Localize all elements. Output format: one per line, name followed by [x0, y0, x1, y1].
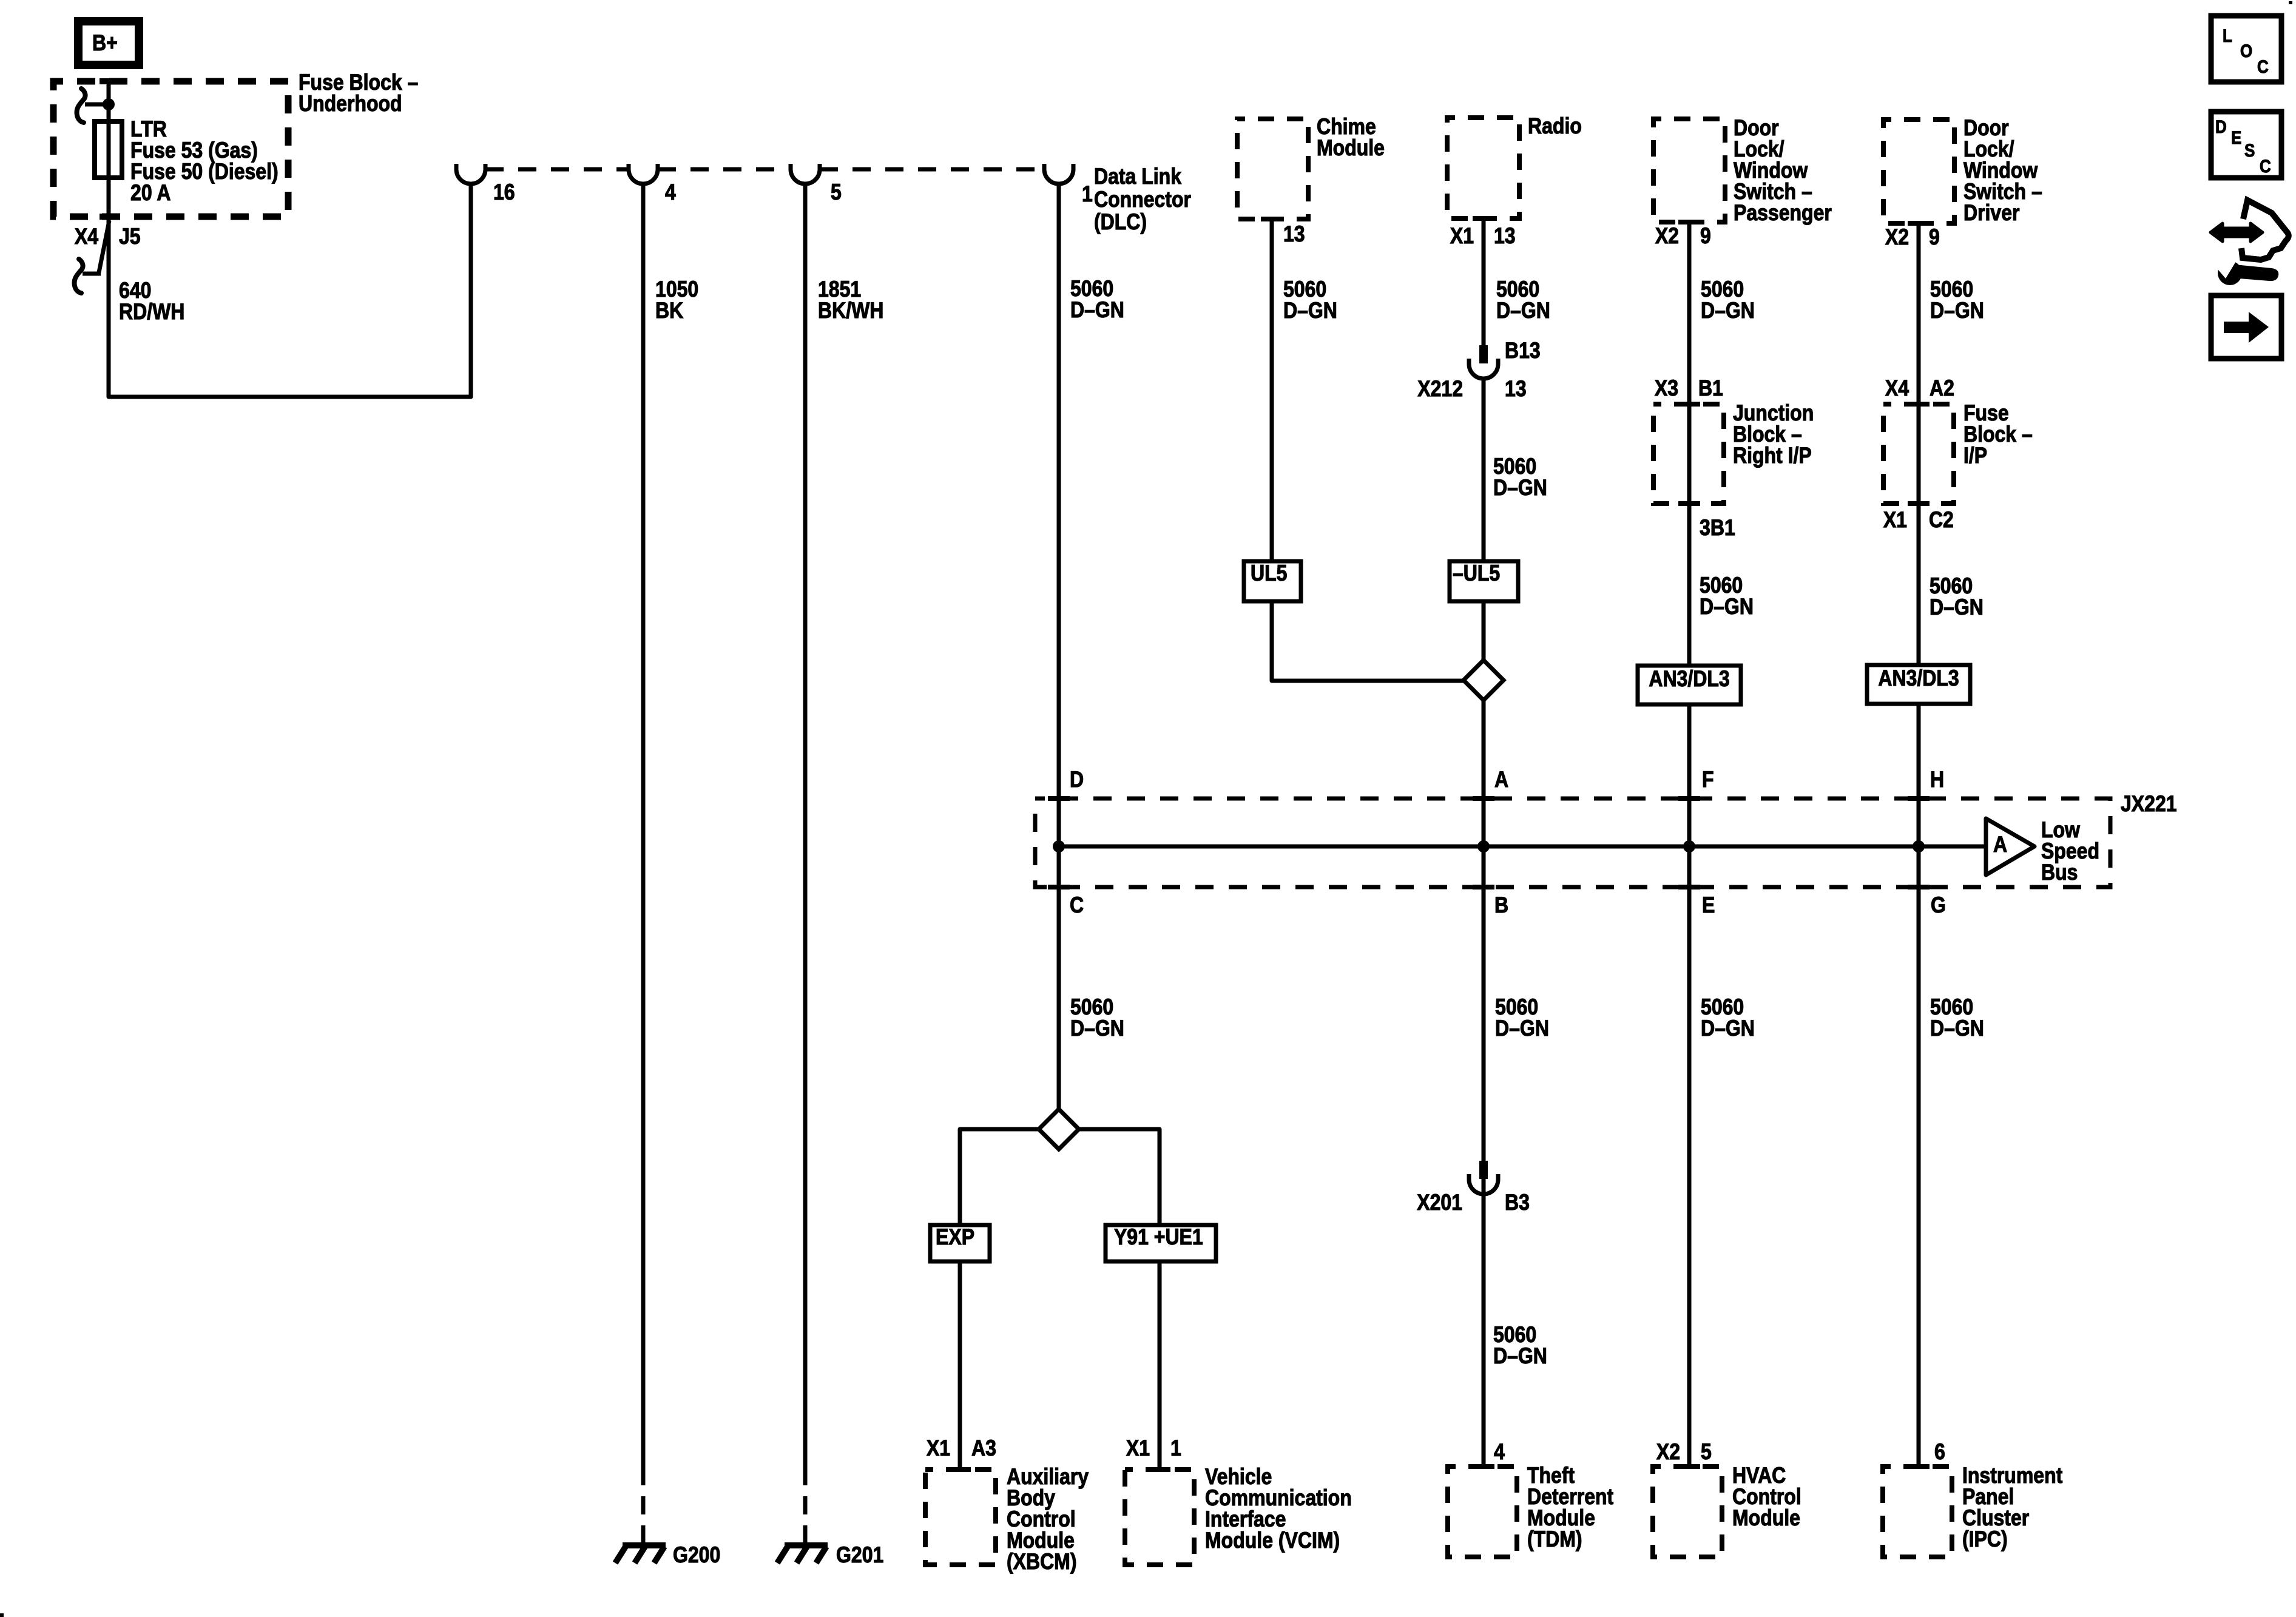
- svg-text:5: 5: [831, 180, 842, 205]
- svg-text:Module (VCIM): Module (VCIM): [1205, 1528, 1340, 1553]
- wire diamond to bus: [1482, 700, 1486, 846]
- svg-text:Module: Module: [1732, 1506, 1800, 1531]
- svg-text:D–GN: D–GN: [1496, 299, 1550, 323]
- svg-text:A2: A2: [1930, 376, 1954, 401]
- fuse AN3/DL3 driver: [1867, 665, 1970, 704]
- DLC pin 1 connector cup: [1044, 164, 1073, 184]
- svg-text:16: 16: [493, 180, 515, 205]
- svg-text:1: 1: [1170, 1436, 1181, 1461]
- wire from driver switch: [1917, 223, 1921, 404]
- svg-text:H: H: [1930, 768, 1944, 792]
- svg-text:X1: X1: [1126, 1436, 1150, 1461]
- junction dots on bus: [1053, 840, 1065, 852]
- HVAC Control Module box: [1653, 1467, 1722, 1557]
- svg-text:E: E: [1702, 893, 1715, 918]
- svg-text:B1: B1: [1698, 376, 1723, 401]
- connector X4 J5 symbols: [99, 221, 109, 272]
- svg-text:D: D: [2215, 116, 2227, 137]
- svg-text:B+: B+: [92, 31, 118, 56]
- junction dot: [103, 98, 115, 110]
- svg-text:D–GN: D–GN: [1930, 595, 1984, 620]
- svg-text:JX221: JX221: [2121, 792, 2177, 817]
- svg-text:Radio: Radio: [1528, 114, 1582, 139]
- arrow icon box: [2211, 295, 2281, 359]
- svg-text:X2: X2: [1885, 225, 1909, 250]
- Door Lock/Window Switch Passenger box: [1653, 119, 1725, 222]
- svg-text:D–GN: D–GN: [1930, 299, 1984, 323]
- svg-text:C: C: [2260, 156, 2271, 176]
- Y91 +UE1 option box: [1106, 1225, 1216, 1261]
- wire EXP to XBCM: [958, 1261, 962, 1470]
- ground G201: [785, 1542, 828, 1548]
- svg-text:4: 4: [1494, 1440, 1505, 1465]
- svg-text:D–GN: D–GN: [1700, 595, 1754, 619]
- JX221 dashed harness box: [1035, 798, 2110, 887]
- wire 640 RD/WH down: [107, 175, 111, 396]
- svg-text:Module: Module: [1317, 136, 1385, 161]
- svg-text:D–GN: D–GN: [1283, 299, 1337, 323]
- Instrument Panel Cluster box: [1883, 1467, 1952, 1557]
- svg-text:Passenger: Passenger: [1734, 201, 1832, 226]
- svg-text:B: B: [1494, 893, 1508, 918]
- svg-text:13: 13: [1283, 222, 1305, 247]
- dashed wire to G200: [641, 1467, 646, 1545]
- wire Y91 to VCIM: [1158, 1261, 1162, 1470]
- svg-text:(IPC): (IPC): [1962, 1527, 2008, 1552]
- dashed wire to G201: [803, 1467, 808, 1545]
- svg-text:9: 9: [1700, 224, 1711, 249]
- Chime Module box: [1237, 119, 1308, 219]
- svg-text:D–GN: D–GN: [1495, 1016, 1549, 1041]
- wire -UL5 to diamond: [1482, 601, 1486, 661]
- svg-text:5: 5: [1701, 1440, 1712, 1465]
- wire branch left to EXP: [960, 1129, 1039, 1227]
- wire from chime: [1270, 219, 1274, 561]
- page corner marks: [0, 1613, 4, 1617]
- wire 640 horizontal run to pin 16: [109, 184, 471, 397]
- svg-text:C: C: [1070, 893, 1084, 918]
- Auxiliary Body Control Module box: [925, 1470, 996, 1565]
- DLC pin 16 connector cup: [456, 164, 485, 184]
- svg-text:A: A: [1494, 768, 1508, 792]
- svg-text:BK/WH: BK/WH: [818, 299, 883, 323]
- tick: [100, 78, 118, 84]
- svg-text:X2: X2: [1655, 224, 1679, 249]
- bus arrow A: [1986, 819, 2034, 875]
- wire 1851 BK/WH: [803, 184, 808, 1467]
- svg-text:I/P: I/P: [1963, 444, 1987, 468]
- svg-text:AN3/DL3: AN3/DL3: [1878, 666, 1959, 691]
- svg-text:3B1: 3B1: [1700, 516, 1735, 541]
- svg-text:X1: X1: [1883, 508, 1907, 533]
- wire below G to IPC: [1917, 846, 1921, 1467]
- svg-text:E: E: [2231, 127, 2241, 147]
- wire through fuse block I/P: [1917, 404, 1921, 665]
- svg-text:20 A: 20 A: [130, 181, 171, 206]
- svg-text:A: A: [1993, 832, 2007, 857]
- Radio box: [1447, 118, 1519, 218]
- svg-text:D: D: [1070, 768, 1084, 792]
- svg-text:Data Link: Data Link: [1094, 164, 1182, 189]
- wire 1050 BK: [641, 184, 646, 1467]
- svg-text:Driver: Driver: [1963, 201, 2019, 226]
- splice diamond UL5: [1464, 660, 1504, 700]
- svg-text:Bus: Bus: [2041, 860, 2078, 885]
- wire branch right to Y91: [1078, 1129, 1160, 1227]
- hand icon double arrow: [2210, 223, 2263, 241]
- svg-text:C: C: [2257, 56, 2269, 76]
- svg-text:Right I/P: Right I/P: [1733, 444, 1812, 468]
- svg-text:X1: X1: [1450, 224, 1474, 249]
- svg-text:(XBCM): (XBCM): [1007, 1550, 1077, 1575]
- svg-text:D–GN: D–GN: [1930, 1016, 1984, 1041]
- svg-text:EXP: EXP: [936, 1225, 974, 1250]
- svg-text:4: 4: [665, 180, 677, 205]
- low speed bus wire: [1059, 845, 1986, 849]
- power feed B+: [78, 21, 139, 65]
- DESC icon box: [2211, 112, 2281, 178]
- -UL5 option box: [1450, 561, 1518, 601]
- svg-text:G201: G201: [836, 1543, 883, 1568]
- splice X201 B3: [1479, 1161, 1488, 1179]
- fuse AN3/DL3 passenger: [1638, 666, 1741, 704]
- DLC connector dashed line: [485, 167, 629, 172]
- wrench icon: [2218, 261, 2242, 285]
- svg-text:X1: X1: [927, 1436, 950, 1461]
- DLC pin 5 connector cup: [791, 164, 820, 184]
- svg-text:B13: B13: [1505, 339, 1541, 363]
- ground G200: [623, 1542, 666, 1548]
- svg-text:X212: X212: [1417, 377, 1463, 402]
- svg-text:S: S: [2244, 140, 2255, 160]
- svg-text:1: 1: [1082, 182, 1093, 207]
- fuse block underhood box: [53, 81, 288, 217]
- svg-text:B3: B3: [1505, 1190, 1530, 1215]
- svg-text:13: 13: [1494, 224, 1516, 249]
- svg-text:UL5: UL5: [1251, 561, 1287, 586]
- svg-text:D–GN: D–GN: [1070, 298, 1124, 323]
- connector hook at B+ junction: [85, 103, 109, 107]
- svg-text:G: G: [1931, 893, 1946, 918]
- svg-text:X3: X3: [1655, 376, 1678, 401]
- wire below C: [1057, 846, 1061, 1110]
- wire from passenger switch: [1687, 222, 1692, 404]
- svg-text:9: 9: [1929, 225, 1940, 250]
- tick: [100, 214, 118, 220]
- svg-text:D–GN: D–GN: [1493, 476, 1547, 501]
- svg-text:Connector: Connector: [1094, 187, 1191, 212]
- LOC icon box: [2211, 16, 2281, 82]
- wire 5060 D-GN from DLC: [1057, 184, 1061, 846]
- wire to -UL5: [1482, 379, 1486, 561]
- svg-text:Underhood: Underhood: [299, 92, 402, 116]
- svg-text:D–GN: D–GN: [1493, 1344, 1547, 1369]
- wire below E to HVAC: [1687, 846, 1692, 1467]
- wire UL5 to diamond: [1272, 601, 1465, 681]
- Door Lock/Window Switch Driver box: [1883, 120, 1954, 223]
- splice X212 B13: [1479, 345, 1488, 363]
- DLC pin 4 connector cup: [629, 164, 658, 184]
- hand icon outline: [2241, 200, 2289, 260]
- EXP option box: [930, 1225, 990, 1261]
- svg-text:RD/WH: RD/WH: [119, 300, 184, 325]
- svg-text:J5: J5: [119, 224, 141, 249]
- svg-text:Y91 +UE1: Y91 +UE1: [1114, 1225, 1203, 1250]
- svg-text:X2: X2: [1656, 1440, 1680, 1465]
- svg-text:A3: A3: [971, 1436, 996, 1461]
- svg-text:AN3/DL3: AN3/DL3: [1649, 667, 1729, 692]
- svg-text:X4: X4: [1885, 376, 1909, 401]
- svg-text:C2: C2: [1929, 508, 1954, 533]
- Theft Deterrent Module box: [1448, 1467, 1517, 1557]
- wire below B: [1482, 846, 1486, 1467]
- Junction Block Right I/P box: [1653, 404, 1724, 504]
- svg-text:(TDM): (TDM): [1527, 1527, 1582, 1552]
- svg-text:G200: G200: [673, 1543, 720, 1568]
- svg-text:X201: X201: [1417, 1190, 1462, 1215]
- svg-text:F: F: [1702, 768, 1714, 792]
- Vehicle Communication Interface Module box: [1125, 1470, 1194, 1565]
- wire AN3/DL3 to bus: [1917, 704, 1921, 846]
- wire from radio: [1482, 218, 1486, 345]
- svg-text:–UL5: –UL5: [1453, 561, 1500, 586]
- fuse LTR Fuse 53: [95, 121, 122, 178]
- wire through junction block: [1687, 404, 1692, 666]
- svg-text:X4: X4: [75, 224, 99, 249]
- svg-text:L: L: [2223, 25, 2232, 46]
- svg-text:D–GN: D–GN: [1701, 1016, 1755, 1041]
- svg-text:13: 13: [1505, 377, 1527, 402]
- svg-text:(DLC): (DLC): [1094, 210, 1147, 235]
- svg-text:6: 6: [1934, 1440, 1945, 1465]
- svg-text:D–GN: D–GN: [1070, 1016, 1124, 1041]
- wire B+ into fuse block: [107, 81, 111, 124]
- svg-text:D–GN: D–GN: [1701, 299, 1755, 323]
- Fuse Block I/P box: [1883, 404, 1954, 504]
- svg-text:BK: BK: [655, 299, 683, 323]
- UL5 option box: [1244, 561, 1301, 601]
- svg-text:O: O: [2240, 41, 2252, 61]
- wire AN3/DL3 to bus: [1687, 704, 1692, 846]
